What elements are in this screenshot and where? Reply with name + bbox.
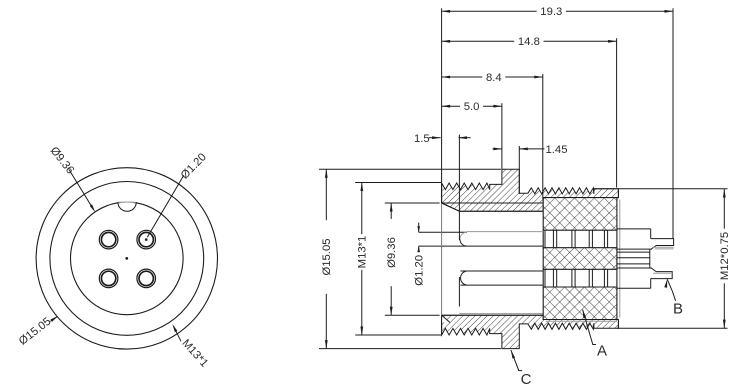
leader C xyxy=(511,350,532,388)
front view inner circle (Ø9.36 insert) xyxy=(71,202,184,315)
svg-text:5.0: 5.0 xyxy=(464,101,480,113)
extension line Ø15.05 bottom xyxy=(319,348,501,350)
pin 3 xyxy=(99,269,118,288)
dimension Ø1.20 side xyxy=(414,223,426,286)
front view middle circle (M13 thread) xyxy=(50,182,204,336)
bore top inner line xyxy=(459,210,543,212)
dimension 1.5 xyxy=(414,133,471,145)
svg-text:8.4: 8.4 xyxy=(486,72,502,84)
extension line M13*1 top xyxy=(355,182,441,184)
svg-text:14.8: 14.8 xyxy=(518,36,540,48)
shell right edge xyxy=(618,189,619,328)
label Ø1.20 with leader xyxy=(147,151,209,237)
extension line 14.8 right xyxy=(616,38,618,187)
svg-text:Ø15.05: Ø15.05 xyxy=(17,315,54,347)
insert bottom shadow xyxy=(546,320,617,322)
svg-text:19.3: 19.3 xyxy=(540,6,562,18)
label Ø15.05 with leader xyxy=(17,315,58,347)
pin 2 leader dot xyxy=(145,238,148,241)
pin 4 channel ribs xyxy=(545,269,608,287)
front bore chamfer lower xyxy=(442,315,450,322)
pin 1 xyxy=(99,230,118,249)
svg-text:Ø1.20: Ø1.20 xyxy=(414,255,426,286)
svg-text:1.5: 1.5 xyxy=(414,133,430,145)
extension line M12*0.75 bottom xyxy=(617,327,728,329)
dimension 14.8 xyxy=(442,35,617,48)
insert A (cross-hatched insulator) xyxy=(543,198,617,320)
extension line M13*1 bottom xyxy=(355,334,441,336)
leader B xyxy=(664,279,683,317)
front face edge xyxy=(441,183,443,335)
dimension 8.4 xyxy=(442,71,543,84)
dimension 5.0 xyxy=(442,100,502,113)
pin 2 xyxy=(137,230,156,249)
dimension Ø9.36 side xyxy=(385,203,398,315)
extension line 8.4 right xyxy=(542,74,544,199)
dimension 1.45 xyxy=(493,144,568,156)
dimension 19.3 xyxy=(442,5,673,18)
bore bottom shadow line xyxy=(459,313,543,315)
label M13*1 with leader xyxy=(172,324,210,370)
contact slot 2 xyxy=(461,271,544,285)
front view outer circle (Ø15.05 flange) xyxy=(36,168,217,349)
dimension Ø15.05 side xyxy=(320,169,333,348)
label Ø9.36 with leader xyxy=(48,145,96,213)
extension line Ø9.36 bottom xyxy=(385,314,440,316)
extension line 19.3 left xyxy=(441,8,443,182)
dimension M13*1 side xyxy=(355,183,368,336)
counterbore face xyxy=(458,211,460,306)
extension line 19.3 right xyxy=(672,8,674,238)
svg-text:M13*1: M13*1 xyxy=(179,337,210,369)
svg-text:1.45: 1.45 xyxy=(546,144,568,156)
extension line 1.45 right xyxy=(518,146,520,194)
extension line Ø15.05 top xyxy=(319,168,502,170)
pin 2 solder tail B xyxy=(651,239,674,250)
svg-text:B: B xyxy=(673,301,683,318)
bore bottom line xyxy=(442,314,544,316)
svg-text:M13*1: M13*1 xyxy=(357,236,369,269)
pin 4 solder tail xyxy=(651,268,673,279)
front bore chamfer diagonal xyxy=(442,203,460,211)
front bore chamfer band upper (hatched) xyxy=(442,203,544,211)
keyway notch xyxy=(118,202,136,211)
svg-text:Ø9.36: Ø9.36 xyxy=(48,145,76,177)
svg-text:C: C xyxy=(521,371,532,388)
connector shell lower section (hatched) xyxy=(442,315,619,348)
svg-text:Ø15.05: Ø15.05 xyxy=(321,238,333,275)
extension line Ø9.36 top xyxy=(385,202,440,204)
connector shell upper section (hatched) xyxy=(442,169,619,203)
svg-text:Ø1.20: Ø1.20 xyxy=(179,151,209,181)
pin 4 body xyxy=(617,268,652,288)
rear insulator block between pins xyxy=(617,249,650,268)
center point xyxy=(125,257,128,260)
dimension M12*0.75 xyxy=(718,189,731,328)
leader A xyxy=(583,310,607,360)
extension line 1.5 right xyxy=(458,135,460,212)
extension line M12*0.75 top xyxy=(594,188,728,190)
svg-text:M12*0.75: M12*0.75 xyxy=(719,232,731,280)
pin 4 xyxy=(137,269,156,288)
extension line 5.0 right xyxy=(501,103,503,169)
pin 2 body xyxy=(617,229,652,249)
svg-text:A: A xyxy=(597,343,607,360)
svg-text:Ø9.36: Ø9.36 xyxy=(386,237,398,268)
pin 2 channel ribs xyxy=(545,230,608,248)
contact slot 1 xyxy=(419,232,544,247)
